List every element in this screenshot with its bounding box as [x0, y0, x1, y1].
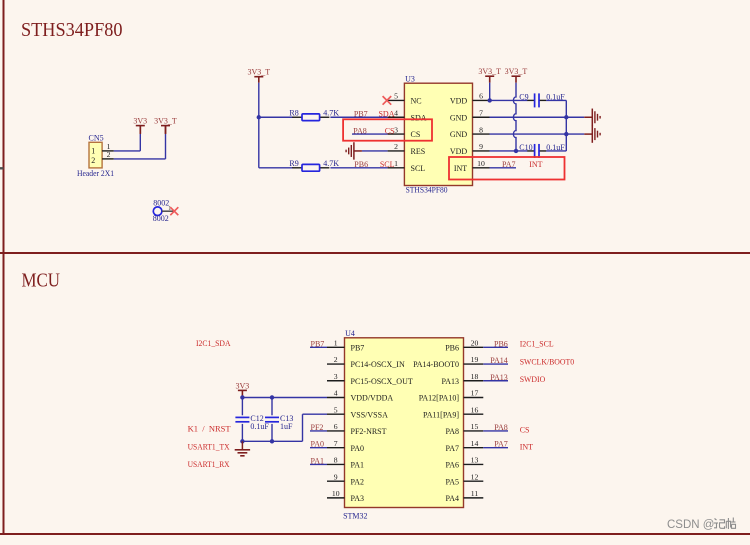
svg-text:3: 3 [334, 372, 338, 381]
svg-text:I2C1_SCL: I2C1_SCL [520, 339, 554, 348]
svg-text:2: 2 [394, 142, 398, 151]
svg-text:PA14: PA14 [490, 356, 508, 365]
svg-text:1: 1 [91, 146, 95, 155]
svg-text:STM32: STM32 [343, 511, 367, 520]
svg-text:3V3_T: 3V3_T [478, 67, 501, 76]
svg-text:PB6: PB6 [354, 160, 368, 169]
svg-text:3V3_T: 3V3_T [505, 67, 528, 76]
svg-text:PA14-BOOT0: PA14-BOOT0 [413, 360, 459, 369]
svg-text:PA4: PA4 [446, 494, 460, 503]
svg-text:1: 1 [334, 339, 338, 348]
svg-text:20: 20 [471, 339, 479, 348]
svg-text:4.7K: 4.7K [323, 159, 339, 168]
svg-text:PA8: PA8 [446, 427, 460, 436]
svg-text:PA11[PA9]: PA11[PA9] [423, 410, 459, 419]
svg-text:PB7: PB7 [351, 344, 365, 353]
svg-text:CSDN @: CSDN @ [667, 519, 714, 531]
svg-text:PA2: PA2 [351, 477, 365, 486]
svg-text:9: 9 [334, 472, 338, 481]
svg-text:R8: R8 [289, 108, 298, 117]
svg-text:PA13: PA13 [442, 377, 460, 386]
svg-text:PA1: PA1 [351, 461, 365, 470]
svg-text:12: 12 [471, 472, 479, 481]
svg-text:PF2: PF2 [311, 423, 324, 432]
svg-text:3: 3 [394, 125, 398, 134]
svg-text:USART1_RX: USART1_RX [188, 460, 230, 469]
svg-text:PA7: PA7 [446, 444, 460, 453]
svg-text:13: 13 [471, 456, 479, 465]
svg-text:PA6: PA6 [446, 461, 460, 470]
svg-text:SDA: SDA [378, 109, 394, 118]
svg-text:C9: C9 [519, 92, 528, 101]
svg-text:PB6: PB6 [494, 339, 508, 348]
svg-text:8: 8 [479, 125, 483, 134]
svg-text:U4: U4 [345, 329, 355, 338]
svg-text:PB7: PB7 [354, 109, 368, 118]
svg-text:1uF: 1uF [280, 422, 293, 431]
svg-text:4: 4 [394, 108, 398, 117]
svg-text:K1 / NRST: K1 / NRST [188, 425, 231, 434]
svg-text:3V3: 3V3 [133, 116, 147, 125]
svg-text:SDA: SDA [411, 113, 427, 122]
svg-text:3V3_T: 3V3_T [247, 67, 270, 76]
svg-text:3V3_T: 3V3_T [154, 116, 177, 125]
svg-text:CS: CS [520, 425, 530, 434]
svg-text:VSS/VSSA: VSS/VSSA [351, 410, 389, 419]
svg-text:GND: GND [450, 130, 468, 139]
svg-text:14: 14 [471, 439, 479, 448]
svg-text:4: 4 [334, 389, 338, 398]
svg-text:PC15-OSCX_OUT: PC15-OSCX_OUT [351, 377, 413, 386]
svg-text:SWDIO: SWDIO [520, 375, 546, 384]
svg-text:SCL: SCL [380, 160, 395, 169]
svg-text:INT: INT [454, 164, 467, 173]
svg-text:SCL: SCL [411, 164, 426, 173]
svg-text:PB6: PB6 [445, 344, 459, 353]
svg-text:PA3: PA3 [351, 494, 365, 503]
svg-text:7: 7 [479, 108, 483, 117]
svg-text:11: 11 [471, 489, 479, 498]
svg-text:2: 2 [107, 150, 111, 159]
svg-text:7: 7 [334, 439, 338, 448]
svg-text:PA7: PA7 [502, 160, 516, 169]
svg-text:PA13: PA13 [490, 373, 508, 382]
svg-text:PA8: PA8 [494, 423, 508, 432]
svg-text:U3: U3 [405, 74, 415, 83]
svg-text:INT: INT [529, 160, 542, 169]
svg-text:2: 2 [91, 156, 95, 165]
svg-text:PF2-NRST: PF2-NRST [351, 427, 387, 436]
svg-text:STHS34PF80: STHS34PF80 [21, 19, 123, 41]
svg-text:MCU: MCU [22, 269, 61, 291]
svg-text:R9: R9 [289, 159, 298, 168]
svg-text:18: 18 [471, 372, 479, 381]
svg-text:GND: GND [450, 113, 468, 122]
svg-text:PC14-OSCX_IN: PC14-OSCX_IN [351, 360, 405, 369]
svg-text:PA0: PA0 [311, 440, 325, 449]
svg-text:0.1uF: 0.1uF [250, 422, 269, 431]
svg-text:USART1_TX: USART1_TX [188, 442, 230, 451]
svg-text:2: 2 [334, 355, 338, 364]
svg-text:6: 6 [334, 422, 338, 431]
svg-text:15: 15 [471, 422, 479, 431]
svg-text:PA7: PA7 [494, 440, 508, 449]
svg-text:PA12[PA10]: PA12[PA10] [419, 394, 460, 403]
svg-text:5: 5 [394, 92, 398, 101]
svg-text:10: 10 [477, 159, 485, 168]
svg-text:CS: CS [411, 130, 421, 139]
svg-text:SWCLK/BOOT0: SWCLK/BOOT0 [520, 358, 575, 367]
svg-text:5: 5 [334, 405, 338, 414]
svg-text:VDD: VDD [450, 147, 468, 156]
svg-text:C10: C10 [519, 143, 532, 152]
svg-text:PA1: PA1 [311, 456, 325, 465]
svg-text:1: 1 [394, 159, 398, 168]
svg-text:PB7: PB7 [311, 339, 325, 348]
svg-text:STHS34PF80: STHS34PF80 [406, 186, 448, 195]
svg-text:Header 2X1: Header 2X1 [77, 169, 114, 178]
svg-text:16: 16 [471, 405, 479, 414]
svg-text:6: 6 [479, 92, 483, 101]
svg-text:8: 8 [334, 456, 338, 465]
svg-text:8002: 8002 [153, 214, 169, 223]
svg-text:VDD: VDD [450, 97, 468, 106]
svg-text:10: 10 [332, 489, 340, 498]
svg-text:9: 9 [479, 142, 483, 151]
svg-text:PA5: PA5 [446, 477, 460, 486]
svg-text:4.7K: 4.7K [323, 108, 339, 117]
svg-text:19: 19 [471, 355, 479, 364]
svg-text:NC: NC [411, 97, 422, 106]
svg-text:RES: RES [411, 147, 426, 156]
svg-text:VDD/VDDA: VDD/VDDA [351, 394, 394, 403]
svg-text:CN5: CN5 [89, 133, 104, 142]
svg-text:INT: INT [520, 443, 533, 452]
svg-text:17: 17 [471, 389, 479, 398]
svg-text:I2C1_SDA: I2C1_SDA [196, 339, 231, 348]
svg-text:PA0: PA0 [351, 444, 365, 453]
svg-text:8002: 8002 [153, 199, 169, 208]
svg-text:3V3: 3V3 [236, 381, 250, 390]
